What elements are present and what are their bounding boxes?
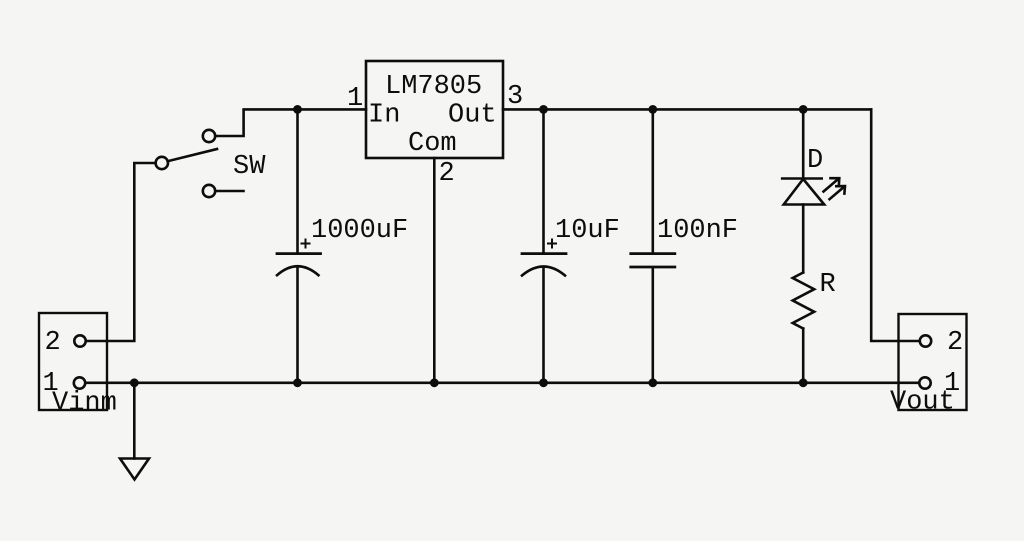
wire: bottom ground rail xyxy=(86,381,920,384)
LED D triangle xyxy=(784,179,825,205)
capacitor C2 lead bottom xyxy=(542,267,545,383)
LED D cathode bar xyxy=(782,177,822,180)
svg-text:10uF: 10uF xyxy=(555,216,620,246)
switch SW bottom contact xyxy=(203,185,215,197)
connector J2 pin 1 circle xyxy=(919,377,930,388)
svg-text:2: 2 xyxy=(947,328,963,358)
capacitor C2 top plate xyxy=(522,252,566,255)
capacitor C3 lead bottom xyxy=(651,268,654,383)
junction: bottom rail at Com xyxy=(430,378,439,387)
svg-text:Com: Com xyxy=(408,129,457,159)
resistor R lead bottom xyxy=(802,329,805,383)
svg-text:LM7805: LM7805 xyxy=(385,72,482,102)
svg-text:100nF: 100nF xyxy=(657,216,738,246)
wire: right side down to output connector pin 2 xyxy=(871,109,919,341)
svg-text:D: D xyxy=(807,146,823,176)
svg-text:2: 2 xyxy=(439,159,455,189)
capacitor C2 10uF lead top xyxy=(542,109,545,252)
LED D lead top xyxy=(802,109,805,178)
svg-text:1000uF: 1000uF xyxy=(311,216,408,246)
ground symbol triangle xyxy=(120,459,149,480)
svg-text:Out: Out xyxy=(448,101,497,131)
connector J1 pin 2 circle xyxy=(74,335,85,346)
svg-text:R: R xyxy=(820,270,836,300)
junction: bottom rail at R xyxy=(799,378,808,387)
junction: bottom rail at ground xyxy=(130,378,139,387)
wire: top rail junction to regulator In pin xyxy=(298,108,367,111)
connector J1 input box xyxy=(39,313,107,410)
wire: regulator Com pin down to bottom rail xyxy=(433,158,436,383)
junction: bottom rail at C3 xyxy=(648,378,657,387)
svg-text:Vout: Vout xyxy=(890,388,955,418)
wire: ground stub xyxy=(133,383,136,459)
svg-text:In: In xyxy=(368,101,400,131)
capacitor C2 bottom curved plate xyxy=(522,267,565,276)
svg-text:3: 3 xyxy=(507,82,523,112)
junction: top rail at C1 xyxy=(293,105,302,114)
switch SW top contact xyxy=(203,130,215,142)
resistor R zigzag xyxy=(793,273,815,329)
wire: regulator Out pin across to right corner xyxy=(503,108,871,111)
svg-text:Vinm: Vinm xyxy=(52,389,117,419)
connector J1 pin 1 circle xyxy=(74,377,85,388)
capacitor C1 bottom curved plate xyxy=(277,266,319,275)
capacitor C1 lead bottom xyxy=(296,267,299,383)
switch SW common contact xyxy=(156,157,168,169)
connector J2 output box xyxy=(899,314,967,410)
regulator U1 LM7805 box xyxy=(366,61,503,158)
junction: top rail at C3 xyxy=(648,105,657,114)
LED D light arrow 1 xyxy=(824,178,840,191)
wire: input pin2 to switch common xyxy=(86,163,156,341)
wire: switch top contact to top rail corner xyxy=(216,109,298,136)
LED D lead to resistor xyxy=(802,205,805,273)
capacitor C3 bottom plate xyxy=(631,266,675,269)
junction: bottom rail at C1 xyxy=(293,378,302,387)
junction: top rail at C2 xyxy=(539,105,548,114)
junction: top rail at LED xyxy=(799,105,808,114)
wire: switch bottom contact stub xyxy=(216,190,244,193)
capacitor C1 1000uF lead top xyxy=(296,109,299,252)
LED D light arrow 2 xyxy=(830,186,846,199)
junction: bottom rail at C2 xyxy=(539,378,548,387)
svg-text:1: 1 xyxy=(347,84,363,114)
plus sign of C2 xyxy=(547,239,557,249)
connector J2 pin 2 circle xyxy=(920,335,931,346)
svg-text:2: 2 xyxy=(45,328,61,358)
capacitor C3 100nF lead top xyxy=(651,109,654,252)
plus sign of C1 xyxy=(301,239,311,249)
switch SW lever xyxy=(168,149,217,161)
capacitor C3 top plate xyxy=(631,252,675,255)
svg-text:SW: SW xyxy=(233,152,266,182)
capacitor C1 top plate xyxy=(277,252,321,255)
